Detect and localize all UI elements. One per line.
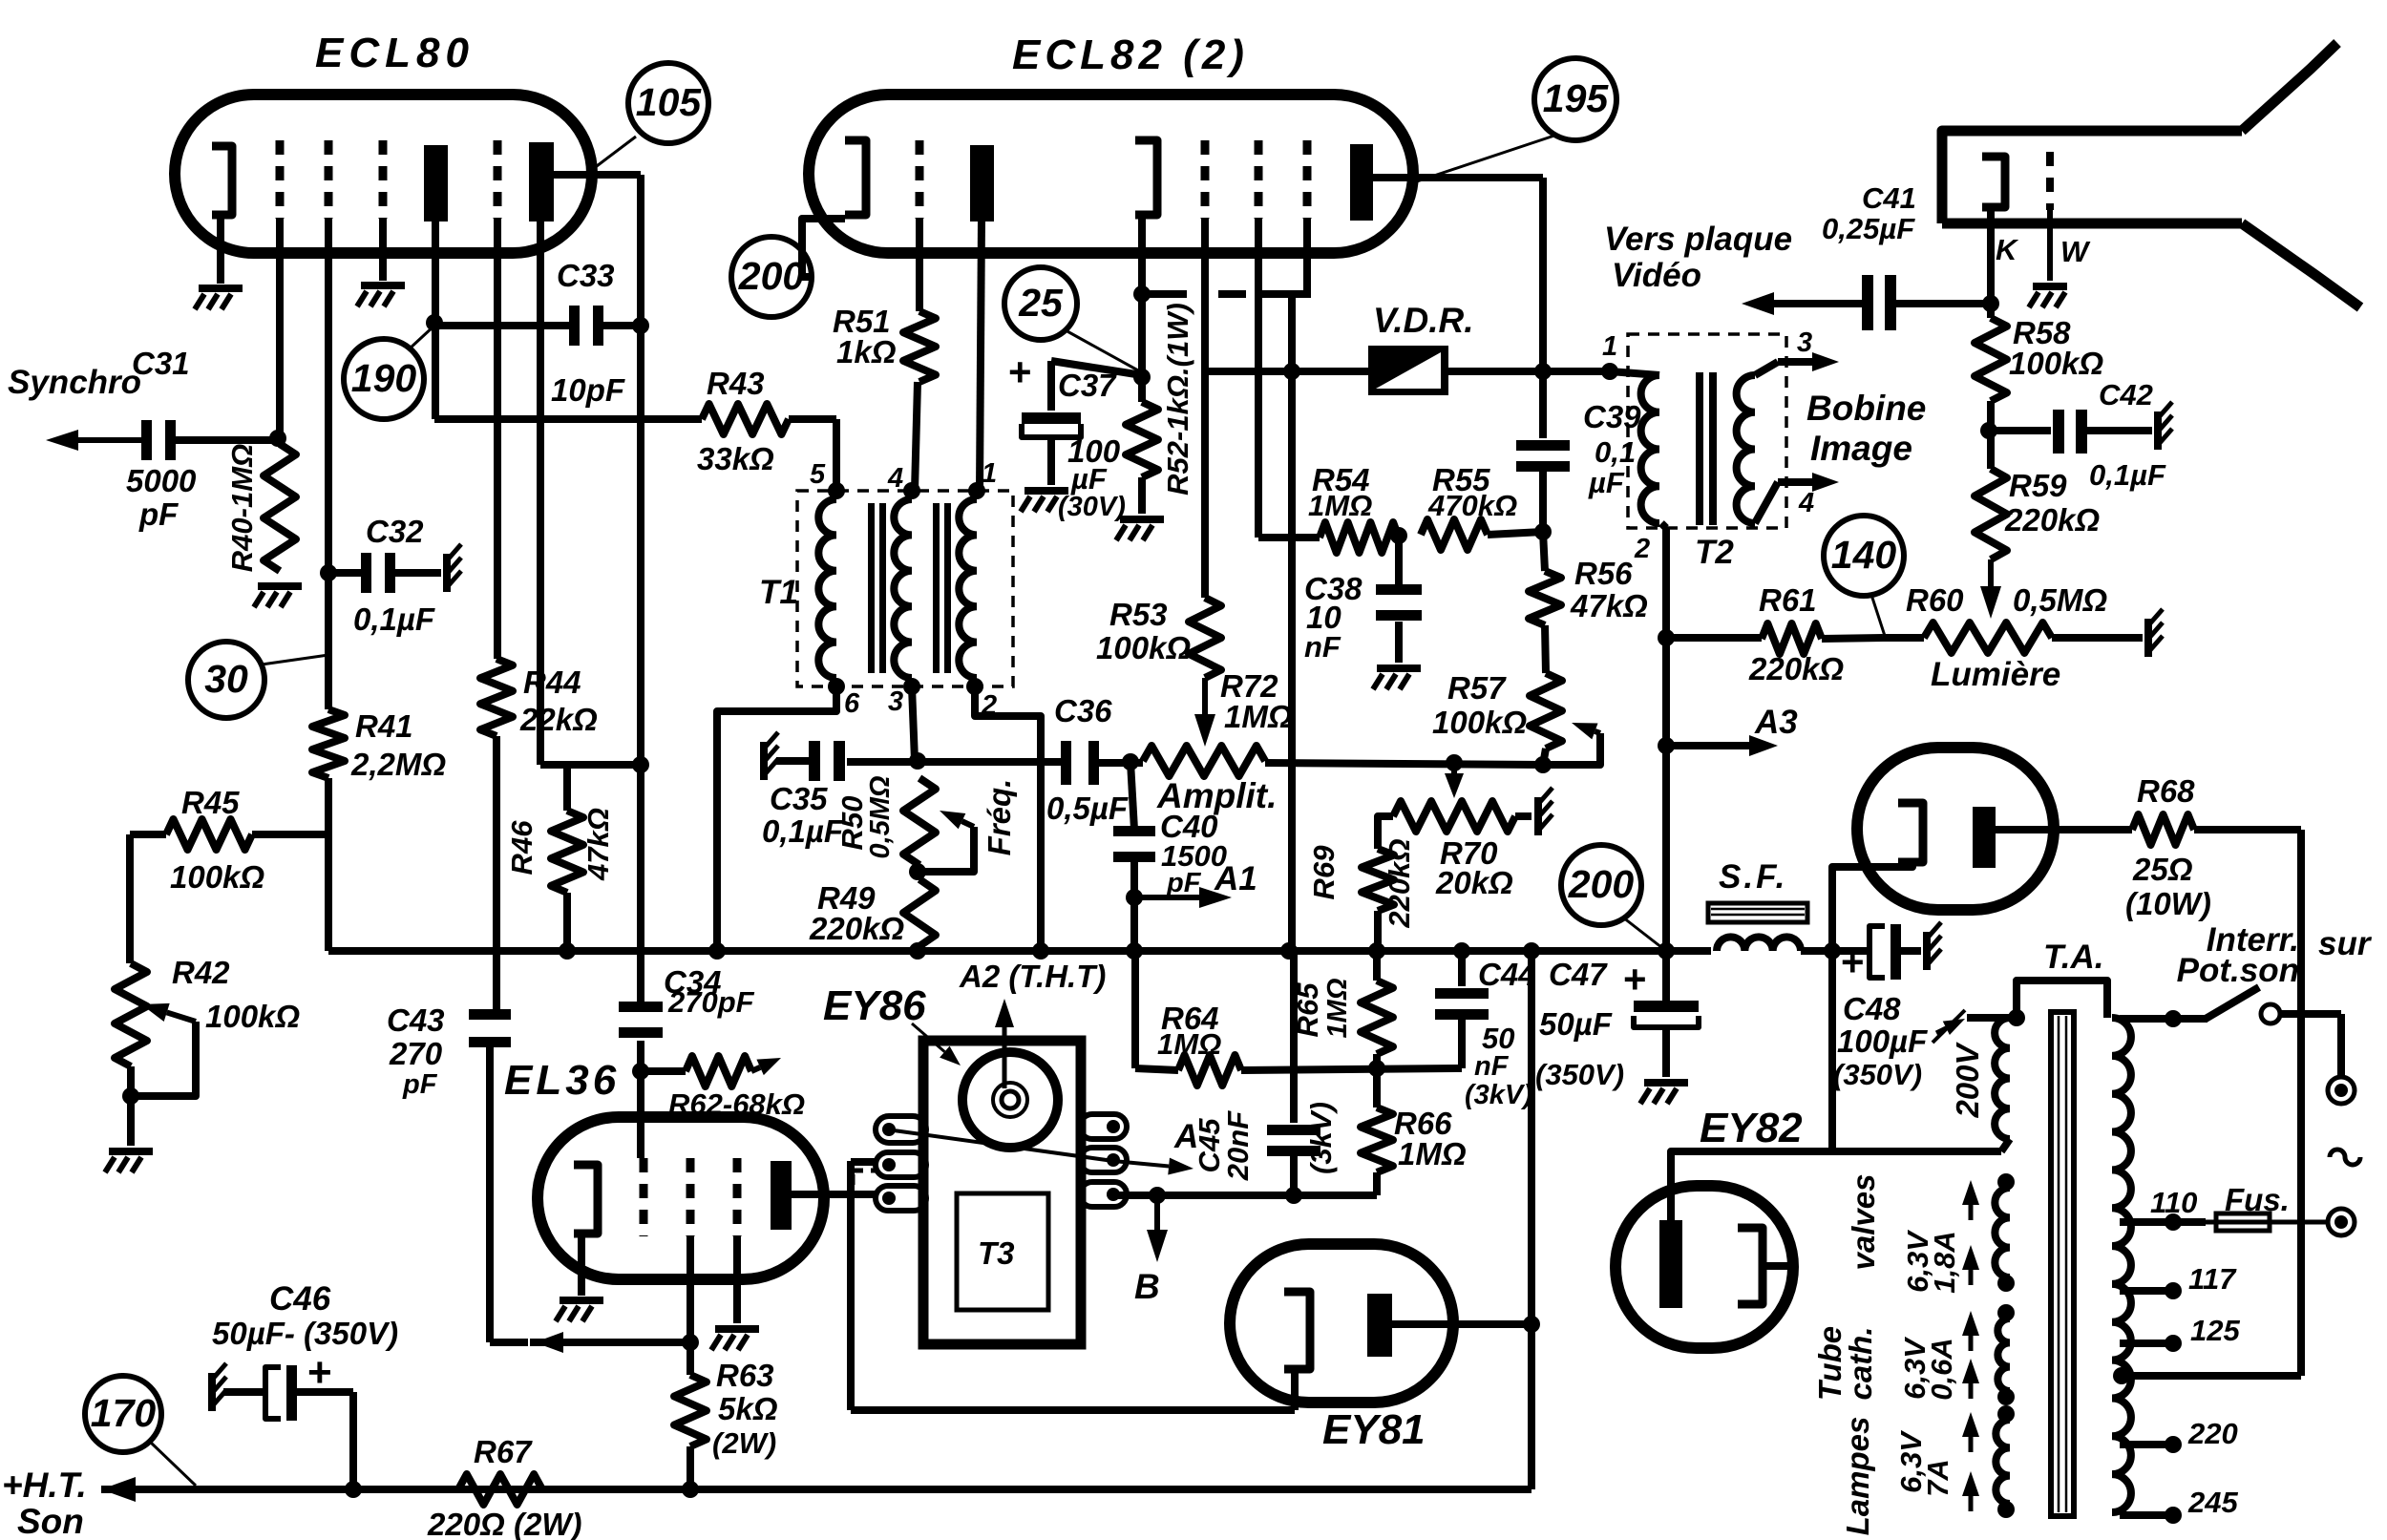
svg-text:170: 170 [91, 1391, 157, 1435]
svg-text:100kΩ: 100kΩ [1432, 705, 1527, 740]
svg-text:EY86: EY86 [823, 982, 926, 1029]
svg-text:190: 190 [351, 356, 417, 400]
svg-text:Lampes: Lampes [1840, 1417, 1875, 1536]
svg-text:valves: valves [1846, 1174, 1881, 1271]
svg-text:47kΩ: 47kΩ [581, 808, 615, 881]
svg-text:µF: µF [1070, 462, 1108, 496]
svg-text:100kΩ: 100kΩ [170, 859, 264, 895]
svg-text:pF: pF [138, 496, 179, 532]
svg-text:1MΩ: 1MΩ [1157, 1027, 1221, 1061]
svg-text:C47: C47 [1549, 957, 1608, 992]
svg-text:pF: pF [1166, 868, 1202, 898]
svg-text:R56: R56 [1574, 556, 1633, 591]
svg-text:1,8A: 1,8A [1928, 1231, 1961, 1293]
svg-text:0,6A: 0,6A [1925, 1338, 1958, 1400]
svg-text:C37: C37 [1058, 368, 1117, 403]
svg-text:R50: R50 [835, 796, 869, 851]
svg-text:(10W): (10W) [2125, 886, 2211, 921]
svg-text:EY82: EY82 [1700, 1105, 1803, 1151]
svg-text:cath.: cath. [1843, 1326, 1878, 1400]
svg-text:C35: C35 [770, 781, 828, 816]
svg-text:+: + [1841, 939, 1865, 984]
svg-text:Fus.: Fus. [2225, 1182, 2290, 1217]
svg-text:R57: R57 [1447, 670, 1507, 706]
svg-text:V.D.R.: V.D.R. [1373, 301, 1474, 340]
svg-text:R52-1kΩ.(1W): R52-1kΩ.(1W) [1161, 303, 1194, 496]
svg-text:200V: 200V [1950, 1041, 1985, 1118]
svg-text:R61: R61 [1759, 582, 1817, 618]
svg-text:1: 1 [982, 458, 997, 489]
svg-text:1: 1 [1602, 331, 1617, 362]
svg-text:10pF: 10pF [551, 372, 625, 408]
svg-text:125: 125 [2190, 1314, 2240, 1347]
svg-text:(3kV): (3kV) [1304, 1102, 1338, 1174]
svg-text:B: B [1134, 1267, 1160, 1306]
svg-text:(30V): (30V) [1058, 492, 1126, 522]
svg-text:nF: nF [1474, 1051, 1510, 1082]
svg-text:pF: pF [402, 1069, 438, 1100]
svg-text:sur: sur [2318, 925, 2373, 962]
svg-text:200: 200 [1568, 862, 1635, 906]
svg-text:4: 4 [1798, 488, 1814, 518]
svg-text:ECL80: ECL80 [315, 30, 475, 76]
svg-text:Vidéo: Vidéo [1612, 257, 1701, 294]
svg-text:0,5µF: 0,5µF [1046, 791, 1129, 826]
svg-text:+: + [1623, 957, 1647, 1002]
svg-text:220Ω (2W): 220Ω (2W) [427, 1507, 581, 1540]
svg-text:T1: T1 [759, 574, 798, 611]
svg-text:100kΩ: 100kΩ [205, 999, 300, 1034]
svg-text:20kΩ: 20kΩ [1435, 865, 1513, 900]
svg-text:0,5MΩ: 0,5MΩ [2013, 582, 2107, 618]
svg-text:110: 110 [2150, 1186, 2197, 1219]
svg-text:195: 195 [1543, 76, 1610, 120]
svg-text:20nF: 20nF [1221, 1110, 1255, 1181]
svg-text:270pF: 270pF [667, 985, 755, 1019]
svg-text:5000: 5000 [126, 463, 197, 498]
svg-text:0,1µF: 0,1µF [762, 813, 844, 849]
svg-text:7A: 7A [1921, 1459, 1954, 1497]
svg-text:C33: C33 [557, 258, 615, 293]
svg-text:A2 (T.H.T): A2 (T.H.T) [959, 959, 1106, 994]
svg-text:270: 270 [389, 1036, 443, 1071]
svg-text:µF: µF [1588, 466, 1625, 499]
svg-text:5: 5 [810, 459, 826, 490]
svg-text:220: 220 [2187, 1417, 2238, 1450]
svg-text:+H.T.: +H.T. [2, 1466, 87, 1505]
svg-text:(3kV): (3kV) [1465, 1080, 1532, 1110]
svg-text:C43: C43 [387, 1002, 445, 1038]
svg-text:2,2MΩ: 2,2MΩ [350, 747, 446, 782]
svg-text:140: 140 [1831, 533, 1897, 577]
svg-text:105: 105 [636, 80, 703, 124]
svg-text:220kΩ: 220kΩ [1748, 651, 1844, 686]
svg-text:Synchro: Synchro [8, 364, 141, 401]
svg-text:C44: C44 [1478, 957, 1536, 992]
svg-text:3: 3 [1797, 327, 1812, 358]
svg-text:R42: R42 [172, 955, 230, 990]
svg-text:220kΩ: 220kΩ [809, 911, 904, 946]
svg-text:C46: C46 [269, 1280, 331, 1318]
svg-text:2: 2 [1634, 534, 1650, 564]
svg-text:1MΩ: 1MΩ [1224, 699, 1293, 734]
svg-text:C36: C36 [1054, 693, 1112, 728]
svg-text:nF: nF [1304, 630, 1341, 664]
svg-text:100kΩ: 100kΩ [2009, 346, 2103, 381]
svg-text:3: 3 [888, 686, 903, 717]
svg-text:Fréq.: Fréq. [982, 779, 1017, 856]
svg-text:R43: R43 [707, 366, 765, 401]
svg-text:470kΩ: 470kΩ [1427, 489, 1517, 522]
svg-text:R68: R68 [2137, 773, 2195, 809]
svg-text:(350V): (350V) [1833, 1058, 1922, 1091]
svg-text:50µF: 50µF [1539, 1006, 1613, 1042]
svg-text:T.A.: T.A. [2043, 939, 2104, 976]
svg-text:C41: C41 [1862, 181, 1916, 215]
svg-text:R41: R41 [355, 708, 413, 744]
svg-text:Pot.son: Pot.son [2177, 952, 2299, 989]
svg-text:0,1µF: 0,1µF [353, 601, 435, 637]
svg-text:T3: T3 [978, 1235, 1015, 1271]
svg-text:ECL82 (2): ECL82 (2) [1012, 32, 1249, 78]
svg-text:220kΩ: 220kΩ [2004, 502, 2100, 538]
svg-text:R67: R67 [474, 1434, 533, 1469]
svg-text:C32: C32 [366, 514, 424, 549]
svg-text:R60: R60 [1906, 582, 1964, 618]
svg-text:C42: C42 [2099, 378, 2153, 411]
svg-text:Bobine: Bobine [1806, 389, 1926, 428]
svg-text:K: K [1996, 233, 2019, 266]
svg-text:47kΩ: 47kΩ [1570, 588, 1648, 623]
svg-text:Son: Son [17, 1502, 84, 1540]
svg-text:(2W): (2W) [712, 1426, 776, 1460]
svg-text:C39: C39 [1583, 399, 1641, 434]
svg-text:117: 117 [2188, 1262, 2237, 1296]
svg-text:R40-1MΩ: R40-1MΩ [225, 444, 259, 572]
svg-text:T2: T2 [1695, 534, 1734, 571]
svg-text:W: W [2060, 235, 2091, 268]
svg-text:R59: R59 [2009, 468, 2067, 503]
svg-text:A: A [1173, 1118, 1198, 1155]
svg-text:100µF: 100µF [1837, 1023, 1928, 1059]
svg-text:1MΩ: 1MΩ [1308, 489, 1372, 522]
svg-text:1MΩ: 1MΩ [1398, 1136, 1467, 1171]
svg-text:R69: R69 [1307, 845, 1341, 900]
svg-text:(350V): (350V) [1535, 1058, 1624, 1091]
svg-text:Image: Image [1810, 429, 1912, 468]
svg-text:A3: A3 [1754, 704, 1798, 741]
svg-text:5kΩ: 5kΩ [718, 1391, 778, 1426]
svg-text:0,1µF: 0,1µF [2089, 458, 2166, 492]
svg-text:+: + [1008, 349, 1032, 394]
svg-text:R63: R63 [716, 1358, 774, 1393]
svg-text:R53: R53 [1109, 597, 1168, 632]
svg-text:C48: C48 [1843, 991, 1901, 1026]
svg-text:30: 30 [204, 657, 248, 701]
svg-text:220kΩ: 220kΩ [1383, 838, 1416, 928]
svg-text:100kΩ: 100kΩ [1096, 630, 1191, 665]
svg-text:50: 50 [1482, 1022, 1514, 1055]
svg-text:4: 4 [887, 463, 903, 494]
svg-text:1kΩ: 1kΩ [836, 334, 897, 369]
svg-text:R45: R45 [181, 785, 240, 820]
svg-text:Vers plaque: Vers plaque [1604, 221, 1792, 258]
svg-text:C31: C31 [132, 346, 190, 381]
svg-text:245: 245 [2187, 1486, 2238, 1519]
svg-text:33kΩ: 33kΩ [697, 441, 774, 476]
svg-text:R44: R44 [523, 665, 581, 700]
svg-text:50µF- (350V): 50µF- (350V) [212, 1316, 398, 1351]
svg-text:Lumière: Lumière [1931, 656, 2060, 693]
svg-text:0,25µF: 0,25µF [1822, 212, 1915, 245]
svg-text:25Ω: 25Ω [2132, 852, 2193, 887]
svg-text:6: 6 [844, 688, 860, 719]
svg-text:R46: R46 [505, 820, 539, 875]
svg-text:EL36: EL36 [504, 1057, 620, 1104]
svg-text:0,5MΩ: 0,5MΩ [865, 775, 896, 858]
svg-text:22kΩ: 22kΩ [519, 702, 598, 737]
svg-text:S.F.: S.F. [1719, 858, 1787, 896]
svg-text:EY81: EY81 [1322, 1406, 1426, 1453]
svg-text:200: 200 [738, 254, 805, 298]
svg-text:25: 25 [1018, 281, 1064, 325]
svg-text:1MΩ: 1MΩ [1322, 978, 1353, 1038]
